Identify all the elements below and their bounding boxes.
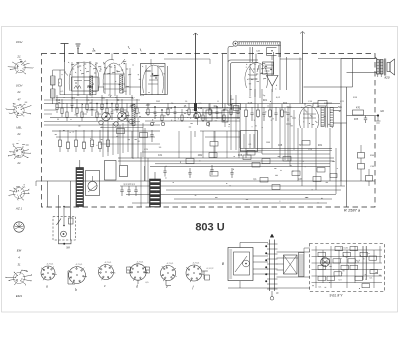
resistor R25 bbox=[302, 141, 310, 146]
wire bbox=[200, 108, 240, 118]
under-chassis socket view e bbox=[161, 263, 177, 289]
svg-text:AZ 1: AZ 1 bbox=[15, 207, 23, 211]
resistor R28b bbox=[317, 168, 325, 173]
wire bbox=[205, 136, 240, 138]
resistor R26 bbox=[210, 142, 218, 147]
wire bbox=[194, 131, 196, 137]
small box R19 bbox=[120, 166, 128, 177]
tube type label UY 21 (V4) bbox=[16, 154, 22, 165]
under-chassis socket view d bbox=[127, 261, 150, 288]
wire bbox=[91, 130, 93, 140]
wire bbox=[255, 54, 257, 63]
wire bbox=[103, 118, 143, 159]
wire bbox=[150, 166, 330, 168]
section marker a bbox=[92, 48, 96, 51]
tube V4 envelope bbox=[245, 63, 268, 99]
svg-text:21: 21 bbox=[16, 90, 21, 94]
svg-text:R35: R35 bbox=[354, 119, 359, 121]
output transformer T4 bbox=[321, 107, 333, 128]
svg-text:820: 820 bbox=[384, 76, 389, 80]
decoupling components row 2 bbox=[59, 140, 110, 152]
tube type label UCH 21 (V1) bbox=[16, 40, 23, 59]
svg-text:803 U: 803 U bbox=[195, 222, 224, 234]
under-chassis socket view f bbox=[186, 263, 214, 290]
wire bbox=[145, 112, 240, 114]
wire bbox=[195, 34, 197, 111]
miscellaneous small annotation marks bbox=[55, 63, 381, 289]
wire bbox=[304, 59, 353, 88]
svg-text:4,7 0,1: 4,7 0,1 bbox=[167, 263, 174, 265]
padder box C27 bbox=[222, 104, 228, 128]
component value labels bbox=[56, 91, 359, 181]
resistor R22 bbox=[247, 151, 255, 156]
V6 socket pinout diagram bbox=[5, 270, 32, 285]
wire bbox=[329, 128, 331, 181]
under-chassis socket view b bbox=[68, 264, 87, 292]
resistor R13 bbox=[140, 133, 148, 138]
wire bbox=[240, 150, 332, 152]
wire bbox=[145, 120, 240, 122]
wire bbox=[44, 110, 56, 114]
resistor R29 bbox=[243, 155, 251, 160]
wire bbox=[36, 181, 42, 186]
wire bbox=[174, 198, 332, 200]
svg-text:R28: R28 bbox=[238, 155, 243, 157]
svg-text:9 EL 8 Y: 9 EL 8 Y bbox=[330, 294, 344, 298]
resistor R30 bbox=[313, 101, 332, 107]
capacitor C38 bbox=[364, 116, 367, 124]
wire bbox=[244, 134, 254, 148]
svg-text:-: - bbox=[19, 140, 20, 143]
mains connector bbox=[59, 240, 72, 244]
wire bbox=[155, 163, 330, 165]
svg-text:EM1: EM1 bbox=[16, 294, 23, 298]
wire bbox=[56, 136, 155, 138]
IF transformer box T2 bbox=[141, 64, 166, 95]
svg-text:4,7 0,1: 4,7 0,1 bbox=[137, 261, 144, 263]
svg-text:EM: EM bbox=[17, 249, 22, 253]
svg-text:R24: R24 bbox=[283, 103, 288, 105]
under-chassis socket view c bbox=[98, 262, 115, 288]
svg-text:0,1 2,2: 0,1 2,2 bbox=[207, 268, 214, 270]
svg-text:R21: R21 bbox=[263, 100, 268, 102]
wire bbox=[335, 148, 337, 194]
wire bbox=[67, 130, 69, 143]
svg-text:1M: 1M bbox=[213, 106, 216, 108]
ballast unit box B bbox=[228, 248, 253, 281]
output tube V5 UL41 envelope bbox=[299, 106, 319, 129]
detector diode (triangle) of V4 bbox=[267, 62, 279, 92]
svg-text:2M2: 2M2 bbox=[198, 155, 203, 157]
wire bbox=[277, 252, 311, 277]
wire bbox=[283, 112, 296, 124]
resistor R23b bbox=[260, 178, 268, 183]
svg-text:4,7 0,1: 4,7 0,1 bbox=[105, 262, 112, 264]
wire bbox=[340, 123, 342, 186]
wire bbox=[100, 127, 143, 129]
tube type label AZ 1 bbox=[15, 207, 23, 211]
power unit dashed boundary bbox=[310, 244, 385, 292]
wave-band switch S1 (contact bank) bbox=[150, 172, 161, 207]
resistor chain right edge bbox=[358, 145, 375, 186]
wire bbox=[141, 152, 148, 207]
svg-text:UBL: UBL bbox=[16, 126, 22, 130]
resistor R9 bbox=[117, 129, 125, 134]
svg-text:4,7 0,1: 4,7 0,1 bbox=[47, 264, 54, 266]
wire bbox=[144, 128, 146, 181]
wire bbox=[120, 185, 345, 187]
svg-text:UCH: UCH bbox=[16, 40, 23, 44]
tube V2 UCH21 envelope bbox=[103, 61, 131, 96]
magic eye indicator box bbox=[86, 171, 100, 196]
V2 socket pinout diagram bbox=[6, 102, 32, 118]
coil assembly above V2 bbox=[104, 54, 125, 65]
loudspeaker LS 820 bbox=[378, 59, 395, 77]
wire bbox=[60, 94, 96, 96]
wire bbox=[75, 130, 77, 140]
svg-text:UCH: UCH bbox=[16, 84, 23, 88]
tube type label UCH 21 (V2) bbox=[16, 84, 23, 102]
wire bbox=[166, 189, 341, 191]
tuning dial scale assembly bbox=[233, 41, 281, 60]
capacitor C16 bbox=[150, 130, 153, 142]
terminal network bbox=[376, 116, 381, 124]
resistor R31 bbox=[252, 163, 260, 168]
speaker matching transformer bbox=[377, 59, 386, 76]
wire bbox=[44, 124, 160, 126]
wire bbox=[98, 86, 141, 88]
wire bbox=[142, 151, 262, 153]
svg-text:1M: 1M bbox=[123, 91, 126, 93]
wire bbox=[59, 130, 61, 140]
svg-text:4,7 0,1: 4,7 0,1 bbox=[193, 263, 200, 265]
wire bbox=[250, 47, 253, 62]
wire bbox=[131, 131, 133, 158]
wire bbox=[253, 256, 268, 274]
wire bbox=[340, 59, 342, 182]
wire bbox=[305, 103, 313, 106]
wire bbox=[56, 107, 338, 109]
wire bbox=[100, 143, 160, 145]
shield terminal bbox=[194, 103, 201, 125]
resistor R27 bbox=[283, 157, 291, 162]
svg-text:21: 21 bbox=[16, 55, 21, 59]
wire bbox=[245, 118, 247, 158]
dial lamp bbox=[61, 231, 67, 237]
svg-text:31: 31 bbox=[18, 263, 21, 267]
AF coupling capacitors C30/C31 bbox=[163, 153, 321, 190]
padder box C26 bbox=[206, 104, 212, 128]
V1 socket pinout diagram bbox=[8, 59, 34, 74]
wire bbox=[287, 118, 289, 161]
wire bbox=[164, 59, 210, 64]
svg-text:21: 21 bbox=[16, 161, 21, 165]
anode load box of V4 bbox=[263, 62, 274, 74]
wire bbox=[271, 89, 273, 148]
tube type label UBL 21 (V3) bbox=[16, 126, 22, 143]
mains switch dashed box bbox=[53, 217, 76, 241]
wire bbox=[279, 108, 281, 158]
wire bbox=[346, 87, 348, 207]
wire bbox=[132, 202, 327, 204]
wire bbox=[44, 99, 140, 101]
wire bbox=[274, 52, 287, 90]
shielded grid lead (double wire) bbox=[228, 47, 258, 111]
heater/cathode bus bbox=[42, 180, 375, 182]
wire bbox=[56, 97, 133, 99]
wire bbox=[99, 130, 101, 143]
wire bbox=[240, 243, 268, 248]
wire bbox=[52, 130, 160, 132]
wire bbox=[285, 104, 294, 166]
wire bbox=[118, 157, 334, 159]
svg-text:d: d bbox=[136, 285, 138, 289]
svg-text:a: a bbox=[46, 285, 48, 289]
tube type label EM 4 bbox=[17, 249, 22, 267]
svg-text:1,1 1,0 1,1: 1,1 1,0 1,1 bbox=[123, 183, 135, 186]
wire bbox=[297, 128, 299, 181]
wire bbox=[302, 32, 304, 104]
V3 socket pinout diagram bbox=[8, 144, 30, 159]
V5 socket pinout diagram bbox=[14, 222, 24, 232]
V4 socket pinout diagram bbox=[9, 185, 30, 200]
svg-text:C31: C31 bbox=[158, 155, 163, 157]
wire bbox=[347, 115, 378, 117]
IF coil L5 hatched bbox=[90, 76, 93, 95]
resistor-capacitor row of mixer stage (R1-R6, C1-C8) bbox=[56, 95, 138, 126]
wire bbox=[262, 153, 330, 155]
wire bbox=[119, 125, 121, 165]
resistor R38 bbox=[353, 107, 364, 116]
wire bbox=[261, 89, 263, 154]
svg-text:470: 470 bbox=[356, 107, 361, 110]
svg-text:4,7 0,1: 4,7 0,1 bbox=[76, 264, 83, 266]
wire bbox=[254, 89, 256, 148]
wire bbox=[50, 117, 240, 119]
IF coil hatched bar in V2 stage bbox=[120, 75, 123, 93]
wire bbox=[44, 103, 340, 105]
wire bbox=[280, 58, 302, 60]
svg-text:2x25: 2x25 bbox=[324, 262, 330, 264]
svg-text:GR: GR bbox=[380, 110, 384, 113]
capacitor C33b bbox=[330, 174, 337, 178]
wire bbox=[213, 131, 215, 158]
wire bbox=[231, 95, 236, 150]
tube V1 UCH21 envelope bbox=[65, 62, 102, 95]
svg-text:0,05: 0,05 bbox=[248, 103, 253, 105]
trimmer capacitors bbox=[150, 122, 210, 126]
oscillator coil box with RM marking bbox=[72, 77, 99, 91]
wire bbox=[48, 181, 71, 240]
barretter switch strip bbox=[265, 234, 277, 300]
svg-text:47: 47 bbox=[18, 98, 21, 102]
svg-text:C22: C22 bbox=[228, 105, 233, 107]
svg-text:C35: C35 bbox=[278, 145, 283, 147]
svg-text:b: b bbox=[75, 288, 77, 292]
wire bbox=[318, 58, 375, 60]
section marker b bbox=[128, 46, 141, 51]
ground symbol bbox=[76, 44, 81, 54]
under-chassis socket view a bbox=[41, 264, 57, 289]
svg-text:R31: R31 bbox=[318, 145, 323, 147]
wire bbox=[44, 121, 140, 123]
resistor R32 bbox=[210, 172, 218, 177]
wire bbox=[126, 194, 336, 196]
tuning capacitor box bbox=[241, 131, 258, 152]
wire bbox=[228, 281, 310, 288]
wire bbox=[301, 128, 303, 186]
wire bbox=[222, 54, 224, 109]
wire bbox=[315, 128, 317, 190]
chassis dashed boundary of receiver 803 U bbox=[42, 54, 376, 208]
tube V3 UBL21 envelope bbox=[142, 59, 164, 95]
svg-text:4M7: 4M7 bbox=[146, 105, 151, 107]
component row of IF stage (R10-R16, C12-C20) bbox=[147, 103, 240, 122]
wire bbox=[240, 148, 332, 150]
wire bbox=[179, 131, 239, 158]
svg-text:C12: C12 bbox=[56, 100, 61, 102]
rectifier/power circuit inside dashed box bbox=[312, 246, 383, 289]
capacitor trio C40 C41 C42 bbox=[120, 183, 137, 196]
svg-text:R12: R12 bbox=[198, 108, 203, 110]
svg-text:C18: C18 bbox=[168, 108, 173, 110]
wire bbox=[83, 130, 85, 143]
wire bbox=[118, 160, 334, 162]
wire bbox=[299, 58, 301, 104]
wire bbox=[165, 66, 168, 95]
svg-text:C37: C37 bbox=[298, 179, 303, 181]
wire bbox=[107, 130, 109, 140]
detector stage components (R20-R23, C24-C28) bbox=[245, 104, 290, 121]
antenna coil L1 bbox=[51, 70, 65, 104]
antenna terminal bbox=[61, 44, 69, 63]
wire bbox=[304, 248, 310, 253]
resistor R33 bbox=[292, 171, 300, 176]
svg-text:21: 21 bbox=[16, 132, 21, 136]
svg-text:R 1587 a: R 1587 a bbox=[344, 208, 361, 213]
IF coil hatched bar right of V2 bbox=[132, 104, 135, 125]
wire bbox=[333, 111, 346, 124]
wire bbox=[200, 130, 240, 132]
heater transformer bbox=[284, 253, 305, 277]
volume control potentiometer R17 bbox=[76, 160, 84, 207]
wire bbox=[341, 57, 378, 73]
wire bbox=[239, 108, 241, 148]
tone box bbox=[105, 161, 117, 181]
svg-text:4 x 0,05: 4 x 0,05 bbox=[340, 248, 349, 250]
